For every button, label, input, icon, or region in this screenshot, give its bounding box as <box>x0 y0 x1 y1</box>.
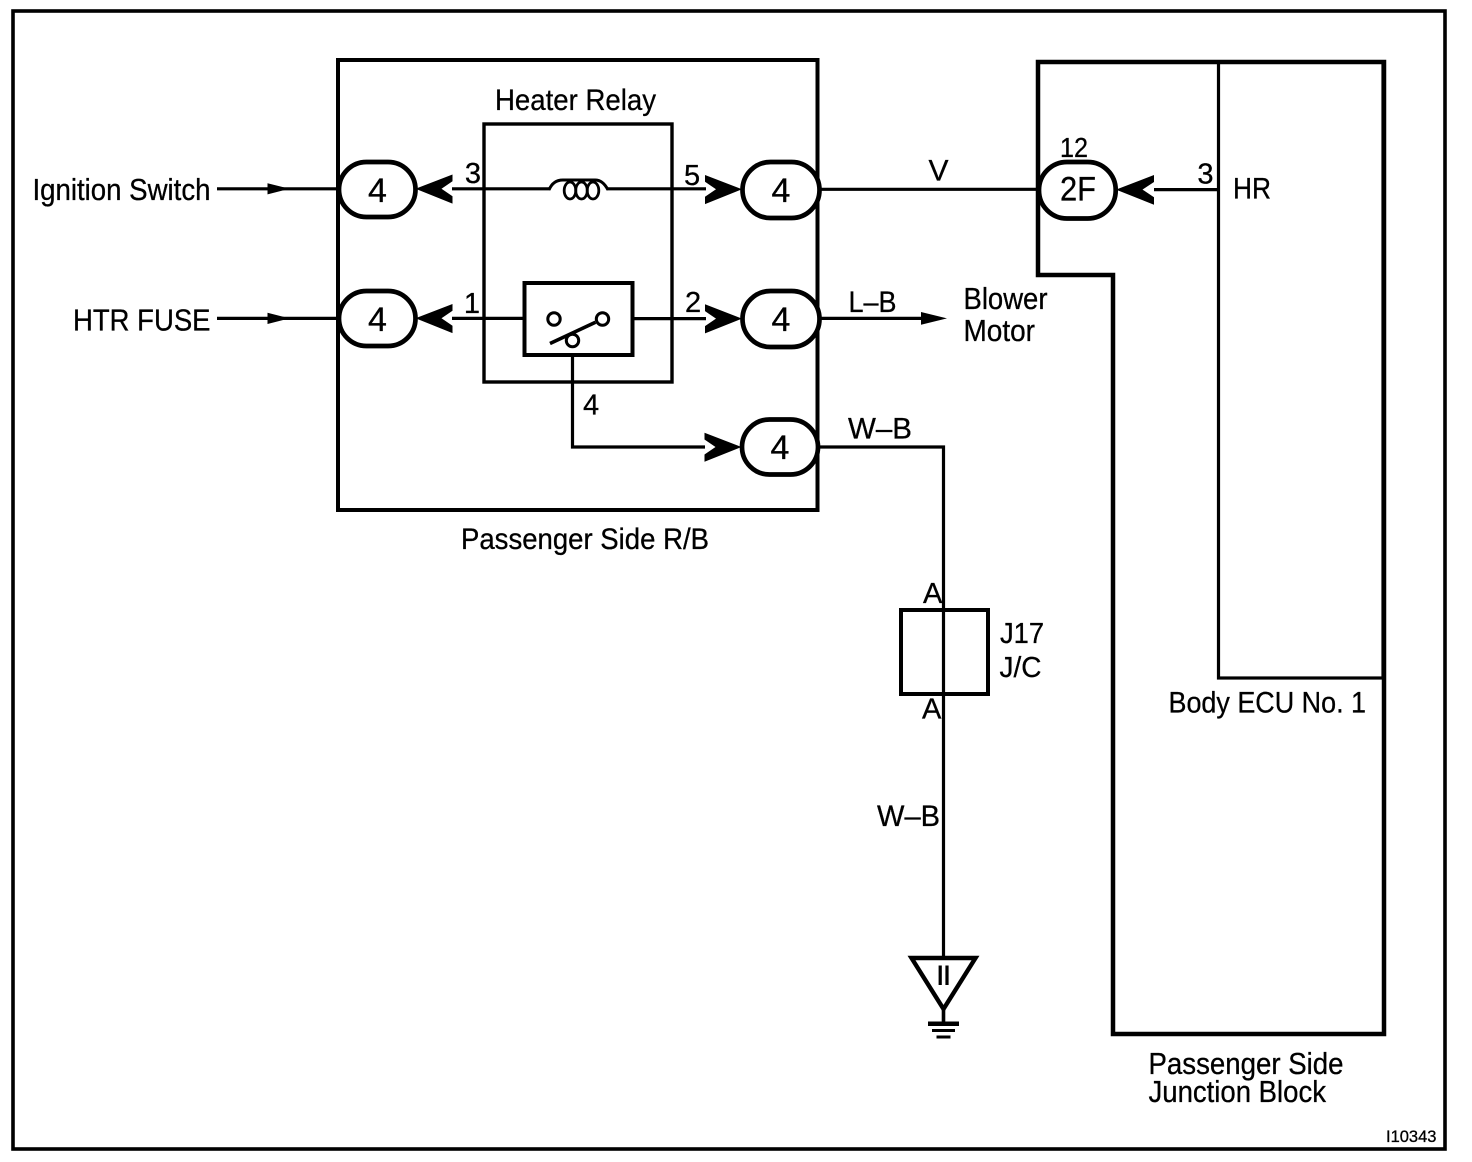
svg-text:4: 4 <box>583 390 599 422</box>
svg-text:J17: J17 <box>1000 618 1044 650</box>
svg-text:W–B: W–B <box>877 800 940 833</box>
svg-text:4: 4 <box>368 301 387 339</box>
svg-text:4: 4 <box>771 429 790 467</box>
svg-text:J/C: J/C <box>1000 652 1042 684</box>
svg-text:4: 4 <box>772 172 791 210</box>
svg-text:3: 3 <box>1197 159 1213 191</box>
svg-text:Body ECU No. 1: Body ECU No. 1 <box>1169 687 1367 720</box>
svg-text:L–B: L–B <box>849 286 897 319</box>
svg-text:V: V <box>928 155 948 188</box>
svg-text:2: 2 <box>685 287 701 319</box>
svg-text:W–B: W–B <box>848 413 912 446</box>
svg-text:2F: 2F <box>1060 171 1096 209</box>
svg-text:HTR FUSE: HTR FUSE <box>73 303 211 338</box>
svg-text:A: A <box>923 578 943 610</box>
svg-text:4: 4 <box>368 172 387 210</box>
svg-text:5: 5 <box>684 160 700 192</box>
svg-text:3: 3 <box>465 158 481 190</box>
svg-text:12: 12 <box>1060 132 1088 163</box>
svg-text:Passenger Side R/B: Passenger Side R/B <box>461 523 709 556</box>
svg-text:A: A <box>922 694 942 726</box>
svg-text:Junction Block: Junction Block <box>1149 1074 1327 1109</box>
svg-text:4: 4 <box>772 301 791 339</box>
svg-text:1: 1 <box>464 288 480 320</box>
svg-text:HR: HR <box>1233 173 1271 206</box>
svg-text:Heater Relay: Heater Relay <box>495 84 656 117</box>
svg-text:Blower: Blower <box>964 281 1048 316</box>
svg-text:Motor: Motor <box>964 313 1036 348</box>
svg-text:Ignition Switch: Ignition Switch <box>33 172 211 207</box>
svg-text:I10343: I10343 <box>1386 1128 1436 1146</box>
